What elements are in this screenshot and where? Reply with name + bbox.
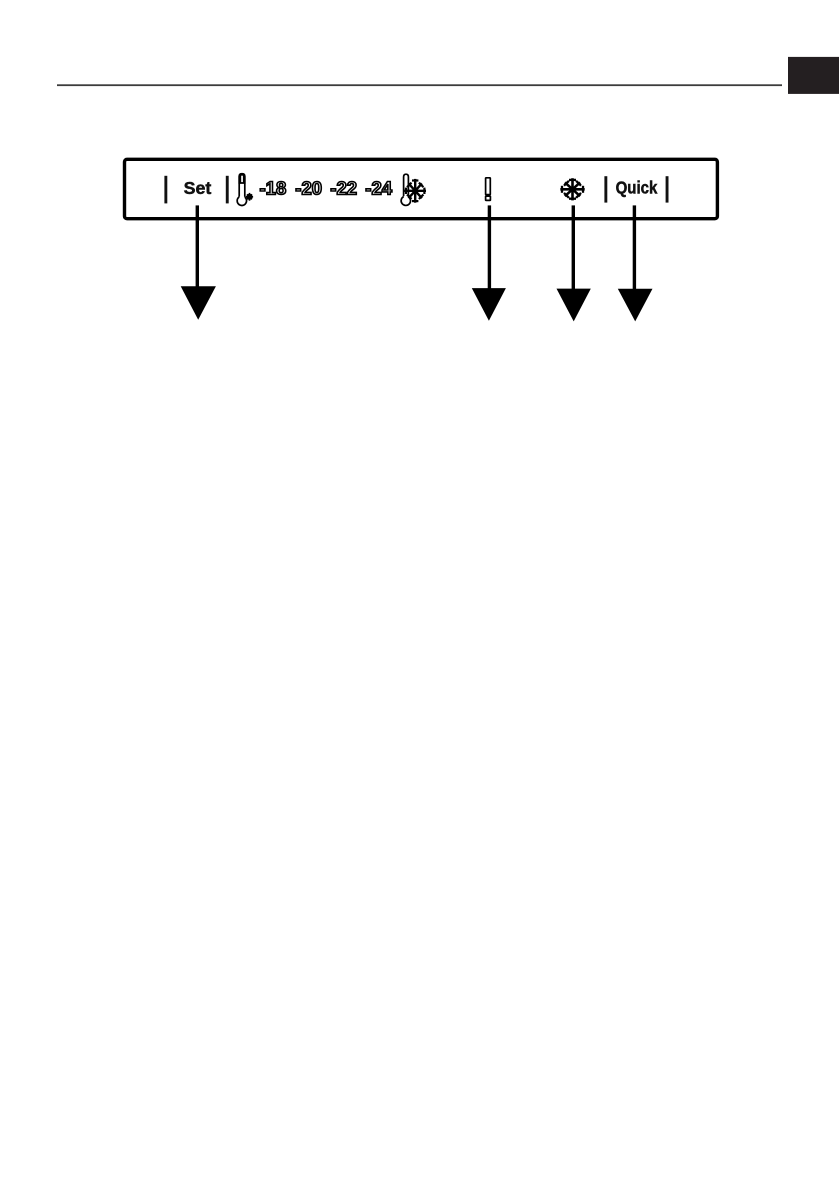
separator bar right of Quick	[666, 176, 669, 202]
svg-text:-24: -24	[365, 178, 392, 199]
arrow from snowflake indicator	[557, 205, 591, 321]
page tab	[788, 57, 839, 94]
svg-text:Quick: Quick	[616, 177, 658, 197]
arrow from alarm indicator	[472, 205, 506, 320]
thermometer icon (temperature setting)	[237, 173, 253, 206]
temperature label -22	[330, 178, 357, 199]
svg-text:-18: -18	[260, 178, 287, 199]
alarm indicator icon (!)	[486, 178, 491, 201]
temperature label -20	[295, 178, 322, 199]
Set button label	[184, 178, 212, 198]
Quick button label	[616, 177, 658, 197]
svg-text:-20: -20	[295, 178, 322, 199]
temperature label -24	[365, 178, 392, 199]
snowflake icon (quick freeze indicator)	[560, 178, 584, 200]
thermometer with snowflake icon (freezing temperature)	[401, 174, 426, 205]
arrow from Quick button	[618, 205, 653, 321]
separator bar left of Quick	[604, 176, 607, 202]
svg-text:-22: -22	[330, 178, 357, 199]
svg-text:Set: Set	[184, 178, 212, 198]
separator bar right of Set	[226, 176, 229, 204]
temperature label -18	[260, 178, 287, 199]
separator bar left of Set	[164, 176, 167, 204]
arrow from Set button	[181, 205, 216, 319]
header rule	[57, 84, 782, 86]
control panel outline	[125, 159, 718, 218]
